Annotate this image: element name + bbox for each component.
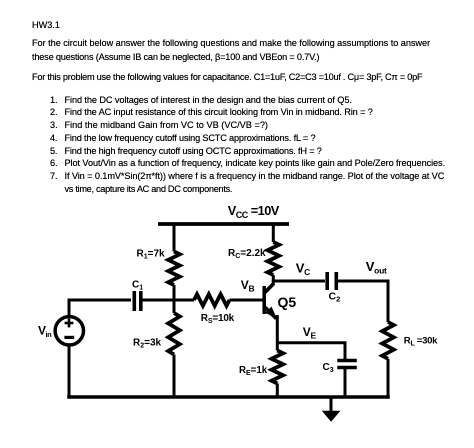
resistor RE [271,351,283,384]
svg-text:RC=2.2k: RC=2.2k [228,248,266,260]
wire C1 to R5 [143,299,195,302]
wire RC branch top [272,224,275,242]
wire ground rail [67,395,390,399]
wire VE node to C3 [277,343,345,359]
wire RE to ground rail [276,384,279,398]
svg-text:VB: VB [241,278,255,294]
svg-text:RE=1k: RE=1k [239,365,268,377]
wire RL to ground rail [387,359,390,399]
wire VC node to C2 [272,280,325,283]
resistor RC [267,242,279,275]
wire Vin bottom [68,345,71,399]
svg-text:VE: VE [303,325,317,341]
resistor R2 [168,313,180,355]
wire R1 to node [173,285,176,301]
source Vin [55,317,83,345]
wire emitter down [276,315,279,351]
wire R1 branch top [173,224,176,252]
resistor R5 [194,294,229,306]
resistor R1 [168,252,180,285]
capacitor C2 [325,272,329,290]
svg-text:VC: VC [296,260,310,277]
capacitor C1 [133,291,137,311]
wire VCC top rail [158,222,289,226]
svg-text:R2=3k: R2=3k [133,338,162,350]
wire C2 to Vout corner [338,281,388,322]
svg-text:VCC =10V: VCC =10V [228,203,280,220]
svg-text:Vin: Vin [38,324,52,339]
ground [330,397,333,412]
wire node to R2 [173,299,176,313]
svg-text:RS=10k: RS=10k [201,313,235,325]
wire Vin top to C1 [69,300,131,316]
wire C3 to ground rail [344,369,347,399]
svg-text:R1=7k: R1=7k [137,249,166,261]
transistor Q5 [262,286,266,314]
wire RC to collector [272,275,275,284]
resistor RL [382,322,394,359]
svg-text:C1: C1 [132,280,143,292]
svg-text:C2: C2 [329,291,341,304]
wire R5 to base [230,299,264,302]
wire R2 to ground rail [173,355,176,398]
svg-text:RL =30k: RL =30k [404,336,438,348]
svg-text:Q5: Q5 [278,294,297,310]
text block [32,20,60,31]
capacitor C3 [337,359,357,363]
svg-text:Vout: Vout [366,259,387,276]
svg-text:C3: C3 [323,362,334,374]
ground [322,411,341,422]
